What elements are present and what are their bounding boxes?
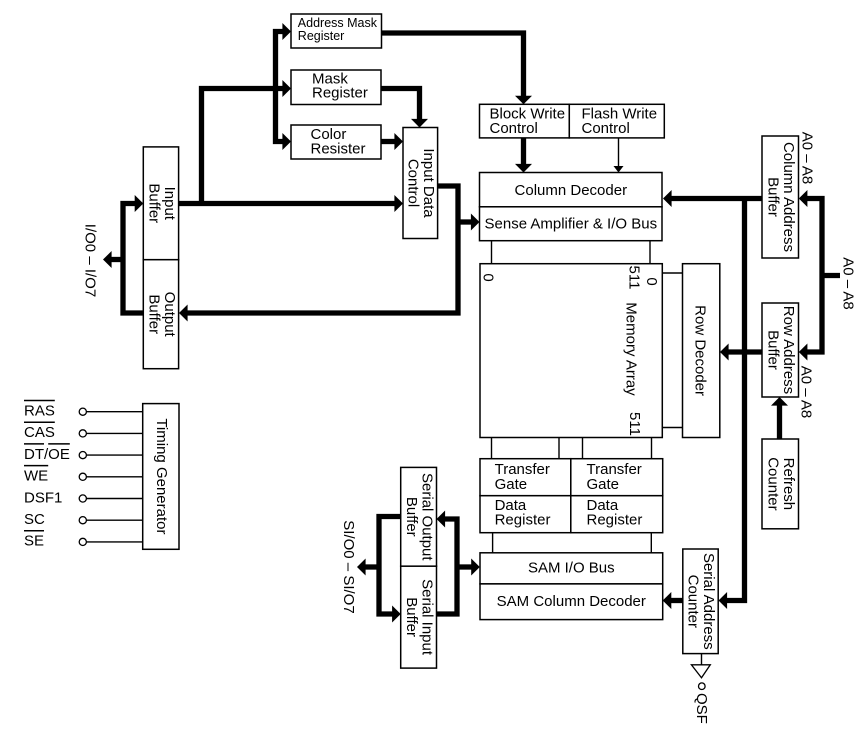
block Transfer Gate (right) [571, 459, 663, 496]
svg-text:Buffer: Buffer [765, 177, 782, 217]
svg-text:SAM I/O Bus: SAM I/O Bus [528, 560, 615, 577]
wire address feed down to Serial Address Counter [726, 199, 745, 601]
overline for RAS [24, 400, 55, 402]
overline for CAS [24, 421, 55, 423]
terminal circle DSF1 [79, 495, 86, 502]
wire Memory Array to Row Decoder connector top [662, 272, 682, 274]
svg-text:0: 0 [480, 273, 497, 281]
wire Memory Array to Transfer Gate connector 3 [582, 438, 584, 459]
svg-text:Sense Amplifier & I/O Bus: Sense Amplifier & I/O Bus [485, 216, 658, 233]
svg-text:RAS: RAS [24, 403, 55, 420]
block Serial Address Counter [683, 549, 718, 654]
svg-text:Counter: Counter [685, 575, 702, 628]
svg-text:Serial Output: Serial Output [419, 473, 436, 561]
overline for DT/OE [24, 443, 44, 445]
arrow into Row Address Buffer [799, 344, 808, 361]
block Row Decoder [683, 264, 720, 438]
svg-text:Input Data: Input Data [420, 148, 437, 218]
wire Block Write Control to Column Decoder [521, 138, 526, 165]
terminal circle CAS [79, 430, 86, 437]
wire serial output bus to SI/O port [379, 517, 401, 615]
svg-text:Timing Generator: Timing Generator [153, 418, 170, 534]
svg-text:Column Address: Column Address [780, 142, 797, 252]
svg-text:Serial Input: Serial Input [419, 579, 436, 656]
arrow into SAM I/O Bus [457, 564, 472, 569]
svg-text:Buffer: Buffer [765, 330, 782, 370]
svg-text:Buffer: Buffer [403, 497, 420, 537]
block Serial Input Buffer [401, 566, 437, 668]
wire Data Register to SAM I/O Bus connector right [650, 533, 652, 553]
block Column Address Buffer [762, 136, 799, 258]
wire SC to Timing Generator [86, 519, 142, 521]
svg-text:DT/OE: DT/OE [24, 446, 70, 463]
wire DT/OE to Timing Generator [86, 454, 142, 456]
svg-text:0: 0 [643, 277, 660, 285]
svg-text:SAM Column Decoder: SAM Column Decoder [497, 593, 646, 610]
wire Refresh Counter up to Row Address Buffer [777, 405, 782, 440]
svg-text:Register: Register [312, 85, 368, 102]
terminal circle DT/OE [79, 452, 86, 459]
terminal circle RAS [79, 408, 86, 415]
wire write-data bus riser from input line to Mask Register [202, 89, 285, 207]
svg-text:Gate: Gate [495, 476, 528, 493]
svg-text:SI/O0 – SI/O7: SI/O0 – SI/O7 [340, 520, 357, 613]
arrow into Serial Input Buffer [392, 606, 401, 623]
wire Column Address Buffer output to Column Decoder [671, 196, 762, 201]
svg-text:Resister: Resister [311, 141, 366, 158]
wire CAS to Timing Generator [86, 432, 142, 434]
block Block Write Control [480, 104, 570, 138]
overline for DT/OE [48, 443, 70, 445]
wire Sense Amp to Memory Array connector right [649, 241, 651, 264]
wire Color Resister output to Input Data Control [381, 139, 396, 144]
block Timing Generator [143, 404, 179, 550]
svg-text:Input: Input [161, 187, 178, 221]
wire Row Address Buffer output to Row Decoder [728, 349, 762, 354]
wire branch to Address Mask Register [276, 32, 285, 91]
terminal circle SC [79, 517, 86, 524]
wire RAS to Timing Generator [86, 411, 142, 413]
svg-text:WE: WE [24, 468, 48, 485]
svg-text:Row Address: Row Address [780, 306, 797, 394]
svg-text:511: 511 [626, 412, 643, 436]
svg-text:Register: Register [298, 29, 345, 43]
register Mask Register [291, 70, 381, 105]
svg-text:Gate: Gate [587, 476, 620, 493]
block Data Register (right) [571, 496, 663, 533]
svg-text:I/O0 – I/O7: I/O0 – I/O7 [82, 224, 99, 297]
svg-text:511: 511 [626, 266, 643, 290]
wire Flash Write Control to Column Decoder (thin) [618, 138, 620, 168]
block Memory Array [480, 264, 662, 438]
buffer triangle QSF driver [691, 665, 710, 678]
block Input Buffer [143, 147, 178, 260]
overline for WE [24, 465, 48, 467]
wire Memory Array to Transfer Gate connector 4 [651, 438, 653, 459]
arrow into Serial Output Buffer [437, 511, 446, 528]
wire Sense Amp to Memory Array connector left [491, 241, 493, 264]
svg-text:Refresh: Refresh [780, 458, 797, 511]
wire A0-A8 stub to label [822, 273, 840, 278]
wire Memory Array to Transfer Gate connector 1 [491, 438, 493, 459]
svg-text:A0 – A8: A0 – A8 [798, 366, 815, 419]
svg-text:Control: Control [405, 159, 422, 207]
svg-text:A0 – A8: A0 – A8 [840, 257, 857, 310]
arrow SI/O0-SI/O7 port [365, 564, 379, 569]
svg-text:Memory Array: Memory Array [622, 302, 639, 396]
block Output Buffer [143, 260, 178, 369]
svg-text:Register: Register [495, 512, 551, 529]
block Data Register (left) [480, 496, 571, 533]
block Transfer Gate (left) [480, 459, 571, 496]
svg-text:Register: Register [587, 512, 643, 529]
block Input Data Control [403, 128, 438, 239]
svg-text:SE: SE [24, 533, 44, 550]
wire Serial Address Counter to QSF buffer [701, 654, 703, 665]
register Color Resister [291, 125, 381, 159]
svg-text:SC: SC [24, 511, 45, 528]
wire Input Data Control output down to Output Buffer [187, 186, 458, 313]
svg-text:Control: Control [582, 120, 630, 137]
block Sense Amplifier & I/O Bus [480, 207, 663, 241]
arrow into Column Address Buffer [799, 190, 808, 207]
svg-text:Column Decoder: Column Decoder [515, 182, 628, 199]
block Refresh Counter [762, 439, 799, 529]
wire serial data bus right of buffers [437, 519, 458, 614]
block Column Decoder [480, 173, 663, 207]
wire WE to Timing Generator [86, 476, 142, 478]
wire SE to Timing Generator [86, 541, 142, 543]
wire branch into Sense Amplifier [458, 219, 473, 224]
wire Address Mask Register output to Block Write Control [382, 33, 524, 97]
overline for SE [24, 530, 44, 532]
wire A0-A8 address bus vertical (right) [806, 199, 822, 353]
svg-text:Control: Control [490, 120, 538, 137]
svg-text:DSF1: DSF1 [24, 489, 62, 506]
wire Memory Array to Row Decoder connector bottom [662, 427, 682, 429]
block SAM Column Decoder [480, 584, 663, 620]
svg-text:Serial Address: Serial Address [700, 553, 717, 650]
terminal circle QSF [699, 683, 706, 690]
svg-text:A0 – A8: A0 – A8 [799, 132, 816, 185]
svg-text:Row Decoder: Row Decoder [692, 305, 709, 396]
svg-text:Buffer: Buffer [145, 294, 162, 334]
wire branch to Color Resister [276, 87, 285, 142]
svg-text:CAS: CAS [24, 424, 55, 441]
wire Memory Array to Transfer Gate connector 2 [558, 438, 560, 459]
wire Mask Register output to Input Data Control top [381, 89, 420, 121]
svg-text:Counter: Counter [765, 457, 782, 510]
wire I/O0-I/O7 port arrow [111, 257, 123, 262]
svg-text:Buffer: Buffer [403, 597, 420, 637]
register Address Mask Register [291, 14, 382, 48]
terminal circle WE [79, 473, 86, 480]
svg-text:Buffer: Buffer [145, 183, 162, 223]
wire Data Register to SAM I/O Bus connector left [492, 533, 494, 553]
terminal circle SE [79, 538, 86, 545]
wire Input Buffer output to Input Data Control [179, 201, 396, 206]
block Row Address Buffer [762, 303, 799, 397]
wire Serial Address Counter to SAM Column Decoder [670, 598, 683, 603]
svg-text:QSF: QSF [693, 693, 710, 724]
svg-text:Output: Output [161, 292, 178, 338]
wire I/O loop: Output Buffer left to Input Buffer left [123, 204, 143, 314]
wire DSF1 to Timing Generator [86, 498, 142, 500]
svg-text:Address Mask: Address Mask [298, 16, 378, 30]
block SAM I/O Bus [480, 553, 663, 584]
block Flash Write Control [569, 104, 664, 138]
block Serial Output Buffer [401, 467, 437, 566]
